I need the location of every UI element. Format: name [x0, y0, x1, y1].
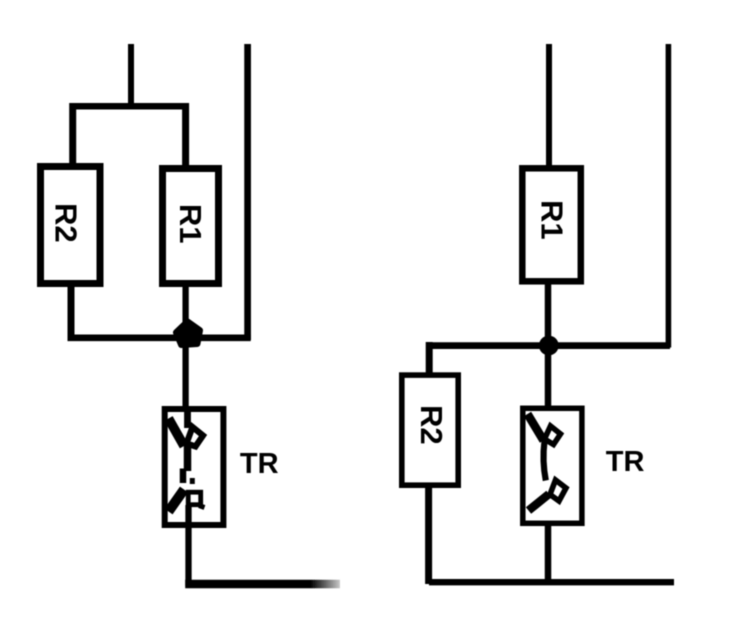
- svg-text:R1: R1: [173, 204, 208, 244]
- svg-text:TR: TR: [240, 448, 279, 480]
- svg-text:R2: R2: [414, 405, 449, 445]
- svg-text:R2: R2: [49, 203, 84, 243]
- svg-text:TR: TR: [606, 446, 645, 478]
- svg-text:R1: R1: [534, 200, 569, 240]
